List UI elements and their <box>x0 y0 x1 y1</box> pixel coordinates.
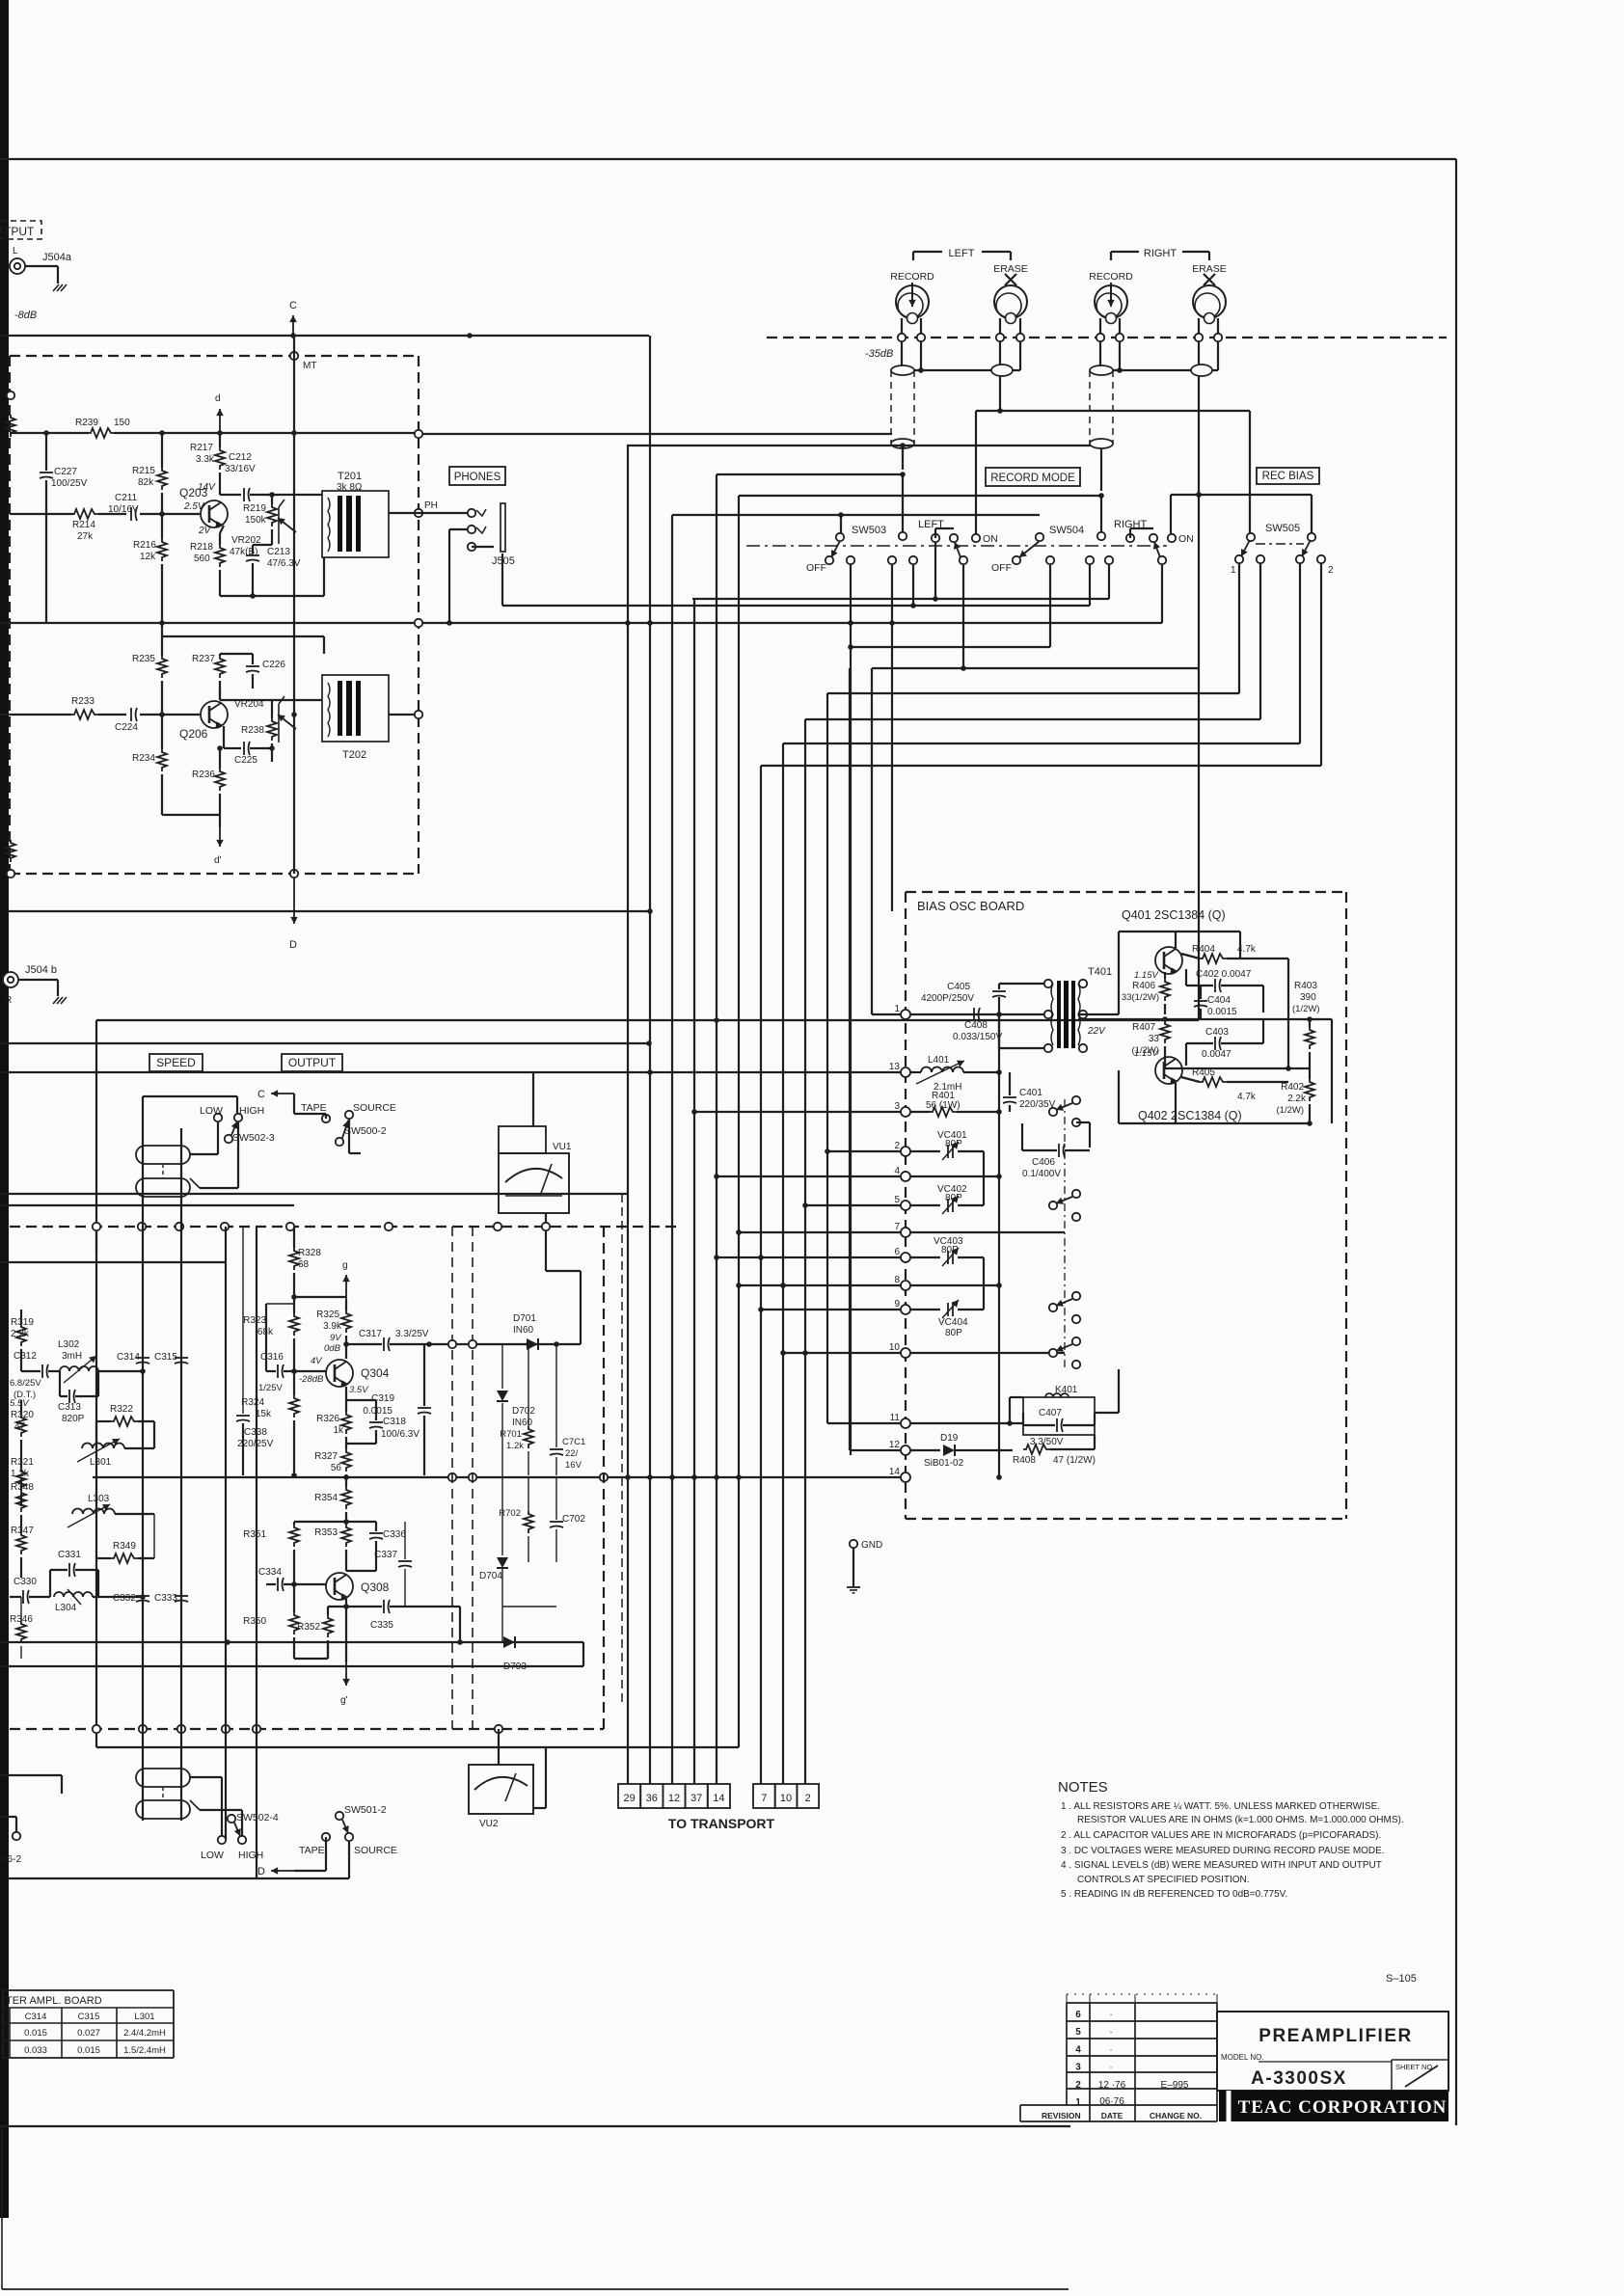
svg-text:C702: C702 <box>562 1514 585 1525</box>
svg-text:TAPE: TAPE <box>299 1845 325 1856</box>
svg-text:5: 5 <box>1075 2027 1081 2038</box>
border right line <box>1455 159 1457 2125</box>
wire coil taps upper <box>190 1153 218 1155</box>
svg-text:4200P/250V: 4200P/250V <box>921 993 974 1004</box>
wire y384 right group <box>1113 369 1191 371</box>
svg-text:3.3/25V: 3.3/25V <box>395 1329 429 1339</box>
terminal head bus <box>1214 334 1222 341</box>
svg-text:C337: C337 <box>374 1550 397 1560</box>
capacitor C224 <box>130 708 132 721</box>
wire x100 stub <box>95 1230 97 1253</box>
varicap VC403 80P <box>910 1256 940 1258</box>
svg-text:R352: R352 <box>297 1622 320 1633</box>
terminal bus1272 <box>93 1223 100 1230</box>
dashed box BIAS OSC BOARD <box>906 891 1346 893</box>
terminal bus1793 <box>139 1725 147 1733</box>
svg-text:100/25V: 100/25V <box>51 478 88 489</box>
svg-text:2 . ALL CAPACITOR VALUES ARE: 2 . ALL CAPACITOR VALUES ARE IN MICROFAR… <box>1061 1830 1381 1841</box>
wire y1082 <box>0 1042 649 1044</box>
wire y533 Q203 base row <box>10 513 73 515</box>
speed switch upper box <box>143 1095 237 1097</box>
bead erase left <box>991 365 1013 376</box>
wire pin10 row <box>910 1352 1065 1354</box>
connector 06-2 <box>13 1832 20 1840</box>
svg-text:12k: 12k <box>140 552 156 562</box>
pin 3 bias board <box>901 1107 910 1117</box>
terminal bus1272 <box>286 1223 294 1230</box>
svg-text:14: 14 <box>889 1467 901 1477</box>
speed coils upper <box>136 1146 190 1164</box>
svg-text:C334: C334 <box>258 1567 282 1578</box>
wire T202 link <box>291 712 297 717</box>
svg-text:4: 4 <box>894 1166 900 1176</box>
terminal head bus <box>1195 334 1203 341</box>
svg-text:C407: C407 <box>1039 1408 1062 1418</box>
svg-text:80P: 80P <box>945 1193 962 1203</box>
wire pin8 feed <box>739 1284 901 1286</box>
wire pin10 feed <box>783 1352 901 1354</box>
svg-text:OFF: OFF <box>806 562 826 574</box>
pin 5 bias board <box>901 1201 910 1210</box>
transistor Q402 <box>1155 1057 1182 1084</box>
svg-text:J504a: J504a <box>42 252 72 263</box>
svg-text:Q402 2SC1384 (Q): Q402 2SC1384 (Q) <box>1138 1109 1242 1122</box>
svg-text:C315: C315 <box>154 1352 177 1363</box>
wire VU1 drop <box>545 1213 547 1223</box>
svg-text:CONTROLS AT SPECIFIED POSITION: CONTROLS AT SPECIFIED POSITION. <box>1077 1875 1250 1885</box>
wire phones ring <box>472 546 494 548</box>
svg-text:R233: R233 <box>71 696 95 707</box>
svg-text:ON: ON <box>983 533 998 545</box>
wire Q308 bottom <box>294 1658 328 1660</box>
svg-text:D704: D704 <box>479 1571 502 1581</box>
terminal bus1793 <box>177 1725 185 1733</box>
switch SW502-3 <box>214 1114 222 1121</box>
wire pin1 feed <box>872 1013 901 1015</box>
wire y514 to bundle <box>739 495 1101 497</box>
svg-text:VU2: VU2 <box>479 1819 499 1829</box>
wire Q206 collector <box>219 689 221 700</box>
svg-text:37: 37 <box>690 1793 702 1804</box>
svg-text:1: 1 <box>1075 2097 1081 2108</box>
svg-text:C315: C315 <box>78 2012 100 2022</box>
wire K401 right <box>1095 1412 1119 1414</box>
svg-text:OFF: OFF <box>991 562 1012 574</box>
svg-text:C313: C313 <box>58 1402 81 1413</box>
resistor R237 <box>215 656 225 678</box>
wire pin3 feed <box>694 1111 901 1113</box>
svg-text:L303: L303 <box>88 1494 110 1504</box>
svg-text:OUTPUT: OUTPUT <box>288 1056 337 1069</box>
potentiometer VR204 <box>279 696 284 743</box>
wire y1812 <box>96 1746 739 1748</box>
wire left-arm down x970 <box>934 542 936 599</box>
switch right-record arm <box>1105 556 1113 564</box>
resistor R404 4.7k <box>1200 954 1227 963</box>
wire pin12 feed <box>850 1449 901 1451</box>
border top line <box>0 158 1456 160</box>
transformer T201 <box>322 491 389 557</box>
resistor R238 <box>267 718 277 741</box>
svg-text:820P: 820P <box>62 1414 85 1424</box>
capacitor C318 100/6.3V <box>369 1421 383 1423</box>
diode D19 SiB01-02 <box>910 1449 940 1451</box>
wire R239 row y449 <box>10 432 89 434</box>
transistor Q308 <box>326 1573 353 1600</box>
svg-text:11: 11 <box>890 1413 901 1423</box>
svg-text:12: 12 <box>668 1793 680 1804</box>
pin 9 bias board <box>901 1305 910 1314</box>
wire y621 <box>692 598 1109 600</box>
svg-text:06·76: 06·76 <box>1099 2096 1124 2107</box>
resistor R408 47 (1/2W) <box>1023 1445 1050 1454</box>
svg-text:R327: R327 <box>314 1451 338 1462</box>
terminal bus1793 <box>253 1725 260 1733</box>
svg-text:5: 5 <box>894 1195 900 1205</box>
svg-text:T202: T202 <box>342 749 366 761</box>
svg-text:06-2: 06-2 <box>2 1854 21 1865</box>
svg-text:4.7k: 4.7k <box>1237 1092 1257 1102</box>
svg-text:DATE: DATE <box>1101 2111 1123 2120</box>
wire y719 <box>827 692 1239 694</box>
wire 22V out <box>1078 1018 1332 1020</box>
varicap VC401 80P <box>910 1150 940 1152</box>
wire y462 cylinder row <box>627 445 1091 446</box>
resistor R325 3.9k <box>341 1310 351 1333</box>
svg-text:80P: 80P <box>941 1245 959 1256</box>
terminal bus1272 <box>542 1223 550 1230</box>
svg-text:·: · <box>1109 2027 1112 2038</box>
svg-text:J504 b: J504 b <box>25 964 57 976</box>
resistor left edge lower <box>6 840 15 862</box>
node C arrow <box>292 315 294 336</box>
svg-text:R214: R214 <box>72 520 95 530</box>
svg-text:C332: C332 <box>113 1593 136 1604</box>
relay K401 <box>1023 1397 1095 1435</box>
connector to-transport group1 <box>618 1784 640 1808</box>
resistor R233 <box>71 710 98 719</box>
resistor R216 12k <box>157 539 167 561</box>
terminal bus1793 <box>495 1725 502 1733</box>
wire pin4 row <box>910 1175 999 1177</box>
ground J504b <box>53 997 67 1004</box>
pin 7 bias board <box>901 1228 910 1237</box>
svg-text:SiB01-02: SiB01-02 <box>924 1458 964 1469</box>
varicap VC402 80P <box>910 1204 940 1206</box>
svg-text:C318: C318 <box>383 1417 406 1427</box>
svg-text:C225: C225 <box>234 755 257 766</box>
wire bundle x743 <box>716 474 717 1784</box>
shield cylinder record right <box>1090 365 1113 375</box>
svg-text:R325: R325 <box>316 1310 339 1320</box>
svg-text:12 ·76: 12 ·76 <box>1098 2080 1126 2091</box>
wire pin5 feed <box>805 1204 901 1206</box>
diode D703 <box>503 1636 515 1648</box>
wire y794 <box>761 765 1321 767</box>
svg-text:220/25V: 220/25V <box>237 1439 274 1449</box>
svg-text:R321: R321 <box>11 1457 34 1468</box>
wire REC BIAS bracket <box>1171 494 1312 496</box>
svg-text:R349: R349 <box>113 1541 136 1552</box>
wire bundle x766 <box>738 496 740 1747</box>
svg-text:4 . SIGNAL LEVELS (dB) WERE M: 4 . SIGNAL LEVELS (dB) WERE MEASURED WIT… <box>1061 1860 1382 1871</box>
svg-text:9: 9 <box>894 1299 900 1310</box>
svg-text:RECORD: RECORD <box>1089 271 1133 283</box>
wire diode col bottom <box>502 1606 556 1607</box>
transformer T202 <box>322 675 389 742</box>
wire Q203 emitter bottom <box>220 595 324 597</box>
terminal left y906 <box>7 870 14 878</box>
svg-text:C405: C405 <box>947 982 970 992</box>
transistor Q401 <box>1155 947 1182 974</box>
svg-text:80P: 80P <box>945 1139 962 1149</box>
capacitor C406 0.1/400V <box>1022 1149 1057 1151</box>
resistor R405 4.7k <box>1200 1077 1227 1087</box>
svg-text:RIGHT: RIGHT <box>1144 248 1177 259</box>
svg-text:0.0015: 0.0015 <box>1207 1007 1237 1017</box>
banner TEAC CORPORATION <box>1219 2091 1448 2121</box>
wire SW503 contact down x882 <box>850 564 852 1455</box>
wire SW504 contact down x1130 <box>1089 564 1091 606</box>
svg-text:TPUT: TPUT <box>4 225 35 238</box>
terminal bus1272 <box>138 1223 146 1230</box>
svg-text:4V: 4V <box>311 1356 323 1366</box>
varicap VC404 80P <box>910 1309 940 1310</box>
wire ON-left riser <box>975 411 977 534</box>
connector J505 phone jack <box>468 509 475 517</box>
node g-prime arrow <box>345 1607 347 1662</box>
svg-text:SPEED: SPEED <box>156 1056 196 1069</box>
resistor R214 27k <box>71 509 98 519</box>
resistor R406 33(1/2W) <box>1160 979 1170 1001</box>
svg-text:A-3300SX: A-3300SX <box>1251 2068 1347 2089</box>
dashed vertical x645 <box>621 1194 623 1707</box>
capacitor C211 10/16V <box>130 507 132 521</box>
capacitor C336 <box>369 1532 383 1534</box>
svg-text:C331: C331 <box>58 1550 81 1560</box>
svg-text:RIGHT: RIGHT <box>1114 519 1148 530</box>
svg-text:TEAC CORPORATION: TEAC CORPORATION <box>1238 2097 1448 2118</box>
terminal ON left <box>972 534 980 542</box>
svg-text:R701: R701 <box>500 1429 522 1440</box>
svg-text:0.033: 0.033 <box>24 2045 47 2056</box>
svg-text:R236: R236 <box>192 770 215 780</box>
dashed vertical x626 <box>603 1227 605 1729</box>
wire bundle x835 <box>804 719 806 1784</box>
svg-text:3: 3 <box>1075 2063 1081 2073</box>
inductor L401 2.1mH <box>910 1071 921 1073</box>
wire y1703 <box>0 1641 583 1643</box>
svg-text:R407: R407 <box>1132 1022 1155 1033</box>
wire x188 long <box>180 1128 182 1821</box>
svg-text:3 . DC VOLTAGES WERE MEASURED: 3 . DC VOLTAGES WERE MEASURED DURING REC… <box>1061 1846 1385 1856</box>
pin 2 bias board <box>901 1147 910 1156</box>
svg-text:VU1: VU1 <box>553 1142 572 1152</box>
wire y1728 <box>0 1665 583 1667</box>
switch left-record arm <box>909 556 917 564</box>
wire record board left edge x100 <box>95 1020 97 1747</box>
wire y1309 <box>0 1261 226 1263</box>
svg-text:TO TRANSPORT: TO TRANSPORT <box>668 1816 775 1831</box>
svg-text:R348: R348 <box>11 1482 34 1493</box>
svg-text:0.0015: 0.0015 <box>363 1406 392 1417</box>
wire erase-left down <box>999 376 1001 411</box>
wire pin4 feed <box>717 1175 901 1177</box>
wire pin7 row <box>910 1231 1065 1233</box>
resistor R235 <box>157 656 167 678</box>
svg-text:E–995: E–995 <box>1161 2080 1189 2091</box>
svg-text:2.2k: 2.2k <box>1287 1094 1307 1104</box>
resistor R403 390 (1/2W) <box>1305 1027 1314 1049</box>
terminal bus1272 <box>176 1223 183 1230</box>
svg-text:MT: MT <box>303 361 316 371</box>
svg-text:SW505: SW505 <box>1265 523 1300 534</box>
shield cylinder record left <box>891 365 914 375</box>
switch wafer dash x1104 <box>1064 1099 1066 1369</box>
svg-text:R: R <box>5 995 12 1006</box>
svg-text:D: D <box>257 1866 265 1877</box>
speed coils lower <box>136 1769 190 1787</box>
wire x148 long <box>142 1128 144 1821</box>
svg-text:(1/2W): (1/2W) <box>1277 1105 1305 1116</box>
capacitor C213 47/6.3V <box>246 554 259 556</box>
svg-text:LOW: LOW <box>201 1850 224 1861</box>
svg-text:C: C <box>289 300 297 311</box>
svg-text:33: 33 <box>1149 1034 1160 1044</box>
svg-text:C7C1: C7C1 <box>562 1437 585 1447</box>
wire record-left leads <box>901 318 903 334</box>
svg-text:T201: T201 <box>338 471 362 482</box>
terminal PH <box>415 509 422 517</box>
svg-text:g: g <box>342 1260 348 1271</box>
svg-text:R323: R323 <box>243 1315 266 1326</box>
pin 8 bias board <box>901 1281 910 1290</box>
wire pin11 row <box>910 1422 1023 1424</box>
terminal bus1793 <box>222 1725 230 1733</box>
wire y1530 node <box>291 1472 297 1478</box>
switch bias s1 <box>1049 1108 1057 1116</box>
dashed board box top-left <box>10 355 419 357</box>
terminal board-edge x490 <box>469 1340 476 1348</box>
svg-text:C319: C319 <box>371 1393 394 1404</box>
wire source drop <box>348 1119 350 1153</box>
wire SW505 c2 down <box>1259 563 1261 719</box>
switch bias s4 <box>1049 1349 1057 1357</box>
svg-text:ON: ON <box>1178 533 1194 545</box>
wire erase-left leads <box>999 318 1001 334</box>
resistor R323 68k <box>289 1313 299 1336</box>
terminal bus1793 <box>93 1725 100 1733</box>
pin 12 bias board <box>901 1445 910 1455</box>
svg-text:0.015: 0.015 <box>77 2045 100 2056</box>
wire bundle x858 <box>826 693 828 1423</box>
svg-text:1k: 1k <box>333 1425 344 1436</box>
wire bundle x651 <box>627 446 629 1784</box>
svg-text:-28dB: -28dB <box>299 1374 324 1385</box>
wire y492 to bundle <box>717 473 903 475</box>
dashed bus y1272 <box>10 1226 679 1228</box>
svg-text:R353: R353 <box>314 1527 338 1538</box>
svg-text:R319: R319 <box>11 1317 34 1328</box>
resistor R402 2.2k (1/2W) <box>1305 1079 1314 1101</box>
wire SW503 contact down x925 <box>891 564 893 911</box>
pin 6 bias board <box>901 1253 910 1262</box>
transistor Q206 <box>201 701 228 728</box>
node d-prime arrow <box>219 827 221 847</box>
label box RECORD MODE <box>986 468 1080 486</box>
svg-text:1.2k: 1.2k <box>506 1441 524 1451</box>
wire y450-out <box>419 433 892 435</box>
resistor R407 33 (1/2W) <box>1160 1021 1170 1043</box>
terminal head bus <box>996 334 1004 341</box>
wire pin14 feed long <box>93 1476 901 1478</box>
wire y671 link <box>851 646 1050 648</box>
wire C402 branch <box>1287 959 1289 1068</box>
wire SW505 c1 down <box>1238 563 1240 693</box>
svg-text:Q206: Q206 <box>179 727 208 741</box>
svg-text:22V: 22V <box>1087 1026 1106 1037</box>
resistor left edge upper <box>6 415 15 437</box>
ground J504a <box>53 284 67 291</box>
svg-text:C227: C227 <box>54 467 77 477</box>
wire y534 <box>672 514 1040 516</box>
svg-text:SW503: SW503 <box>852 525 886 536</box>
svg-text:R347: R347 <box>11 1526 34 1536</box>
capacitor C401 220/35V <box>1003 1096 1016 1098</box>
svg-text:LOW: LOW <box>200 1105 223 1117</box>
capacitor C226 <box>246 665 259 667</box>
wire VU2 bottom <box>533 1807 546 1809</box>
svg-text:16V: 16V <box>565 1460 582 1471</box>
dashed bus y1793 <box>10 1728 604 1730</box>
connector J504a <box>10 258 25 274</box>
wire y426 erase-left run <box>976 410 1250 412</box>
wire phones sleeve <box>449 528 468 530</box>
node D arrow <box>293 878 295 924</box>
svg-text:3mH: 3mH <box>62 1351 82 1362</box>
svg-text:R234: R234 <box>132 753 155 764</box>
wire T401 top rail <box>999 983 1053 985</box>
svg-text:d': d' <box>214 855 222 866</box>
switch bias s3 <box>1049 1304 1057 1311</box>
node D feed <box>271 1870 294 1872</box>
capacitor C319 0.0015 <box>418 1407 431 1409</box>
svg-text:2: 2 <box>1075 2080 1081 2091</box>
wire y384 left group <box>914 369 992 371</box>
wire SW505 arm riser <box>1249 411 1251 533</box>
svg-text:R219: R219 <box>243 503 266 514</box>
svg-text:(1/2W): (1/2W) <box>1292 1004 1320 1014</box>
wire bias inner vertical x1036 <box>998 1014 1000 1477</box>
wire pin13 feed <box>0 1071 901 1073</box>
connector J504b <box>3 972 18 987</box>
svg-text:RESISTOR VALUES ARE IN OHMS (k: RESISTOR VALUES ARE IN OHMS (k=1.000 OHM… <box>1077 1815 1404 1825</box>
terminal dashed x434 y450 <box>415 430 422 438</box>
svg-text:3.5V: 3.5V <box>349 1385 369 1395</box>
wire erase-right leads <box>1198 318 1200 334</box>
wire pin11 feed <box>827 1422 901 1424</box>
svg-text:2: 2 <box>894 1141 900 1151</box>
svg-text:12: 12 <box>889 1440 901 1450</box>
wire y628 <box>502 605 1090 607</box>
capacitor C408 0.033/150V <box>973 1008 975 1021</box>
wire record-left to switch <box>902 448 904 470</box>
wire SW505 c4 down <box>1320 563 1322 766</box>
head erase left <box>994 285 1027 318</box>
svg-text:0.1/400V: 0.1/400V <box>1022 1169 1061 1179</box>
svg-text:SOURCE: SOURCE <box>354 1845 397 1856</box>
border left black scan bar <box>0 0 9 2218</box>
